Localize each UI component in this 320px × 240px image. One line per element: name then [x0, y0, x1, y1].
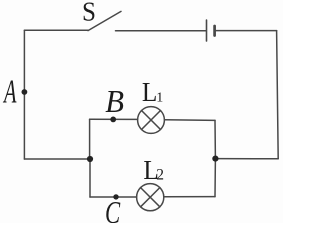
node B: [110, 117, 116, 123]
wire L2-branch right horizontal: [164, 196, 215, 198]
battery long plate (+): [206, 20, 208, 41]
wire left vertical: [23, 30, 25, 159]
svg-text:L: L: [142, 76, 157, 107]
node C: [113, 194, 118, 199]
wire top-left segment: [24, 29, 88, 31]
wire L1-branch right horizontal: [165, 119, 215, 122]
battery short plate (-): [213, 26, 216, 36]
wire bottom-right segment: [215, 158, 278, 160]
svg-text:2: 2: [156, 166, 164, 183]
wire top-right segment: [216, 30, 277, 32]
svg-text:A: A: [3, 73, 18, 111]
svg-text:1: 1: [156, 91, 163, 106]
wire bottom-left segment: [24, 158, 90, 160]
wire L1-branch left riser: [89, 119, 91, 159]
svg-text:C: C: [105, 196, 121, 223]
node junction right: [212, 156, 218, 162]
wire top-middle segment (switch to battery): [116, 30, 206, 32]
wire L1-branch left horizontal: [90, 118, 138, 120]
switch S blade: [88, 11, 121, 30]
svg-text:B: B: [105, 84, 124, 120]
node junction left: [87, 156, 93, 162]
wire right vertical: [277, 31, 279, 159]
wire L1-branch right riser: [214, 120, 216, 158]
wire L2-branch left riser: [89, 159, 91, 197]
node A: [22, 89, 28, 95]
lamp L1 circle and cross: [138, 107, 165, 134]
svg-text:S: S: [82, 0, 96, 27]
lamp L2 circle and cross: [137, 184, 164, 211]
wire L2-branch left horizontal: [90, 196, 137, 198]
wire L2-branch right riser: [214, 159, 216, 197]
